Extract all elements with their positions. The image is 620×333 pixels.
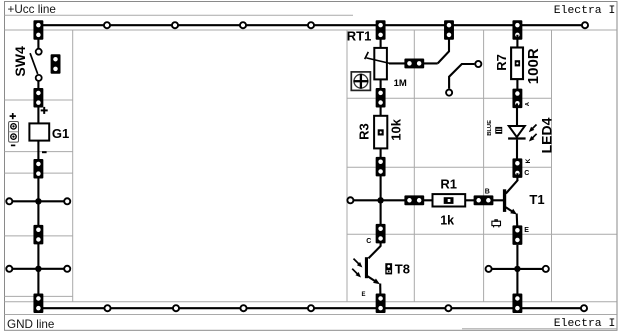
svg-text:Electra I: Electra I — [554, 5, 616, 17]
trimmer screw icon — [351, 72, 370, 91]
pad LED K / T1 C — [512, 158, 522, 178]
LED LED4 — [508, 103, 525, 163]
pad Ucc jumper — [444, 20, 454, 40]
pad G1 minus — [33, 159, 43, 179]
svg-text:SW4: SW4 — [12, 46, 28, 77]
node junction on +Ucc bus 3 — [240, 22, 246, 28]
node cross 2 junction dot — [35, 266, 41, 272]
switch SW4 — [12, 46, 42, 81]
svg-text:R1: R1 — [440, 176, 457, 191]
svg-text:1k: 1k — [440, 214, 454, 228]
node cross 1 junction dot — [35, 198, 41, 204]
svg-text:100R: 100R — [525, 48, 542, 84]
node junction on +Ucc bus 4 — [308, 22, 314, 28]
wire R7 to pad — [516, 79, 518, 93]
pad GND left — [33, 294, 43, 314]
pad Ucc R7 — [512, 20, 522, 40]
wire SW4 to G1 to GND — [37, 81, 39, 123]
node +Ucc bus wire — [38, 24, 585, 26]
wire R3 down to T8 — [380, 148, 382, 246]
wire cross node 1 — [9, 200, 67, 202]
node junction on GND bus 4 — [308, 305, 314, 311]
pad SW4 spare contact — [51, 54, 61, 74]
svg-text:T1: T1 — [529, 192, 544, 207]
svg-text:LED4: LED4 — [538, 117, 554, 153]
pad R7 bottom — [512, 89, 522, 109]
wire R1 left — [354, 199, 433, 201]
node cross right left terminal — [486, 266, 492, 272]
node junction on +Ucc bus 2 — [172, 22, 178, 28]
resistor R3 10k — [356, 116, 403, 149]
pad T8 C — [376, 224, 386, 244]
pad RT1 wiper link — [404, 58, 424, 68]
wire R1 to T1 base — [465, 199, 503, 201]
phototransistor T8 — [365, 246, 410, 308]
svg-text:G1: G1 — [52, 126, 69, 141]
pad R1 right — [474, 195, 494, 205]
node +Ucc bus end terminal — [582, 22, 588, 28]
trimmer RT1 — [347, 28, 407, 89]
T8 package icon — [385, 263, 392, 274]
node junction on GND bus 3 — [240, 305, 246, 311]
wire cross node 2 — [9, 268, 67, 270]
svg-text:BLUE: BLUE — [487, 120, 493, 136]
svg-text:B: B — [485, 188, 490, 195]
pad RT1-R3 — [376, 88, 386, 108]
node cross 2 right terminal — [64, 266, 70, 272]
pad T1 E — [512, 225, 522, 245]
wire cross node right — [489, 268, 546, 270]
pad GND right — [512, 294, 522, 314]
node cross 1 left terminal — [6, 198, 12, 204]
wire RT1 to R3 — [380, 79, 382, 116]
svg-text:R7: R7 — [494, 54, 509, 71]
svg-text:E: E — [524, 227, 529, 234]
svg-text:Electra I: Electra I — [554, 318, 616, 330]
battery clip icon — [9, 113, 19, 145]
svg-text:10k: 10k — [389, 118, 404, 140]
svg-text:1M: 1M — [394, 78, 407, 89]
node R1 row open terminal — [347, 197, 353, 203]
pad R3 bottom — [376, 157, 386, 177]
resistor R7 100R — [494, 35, 542, 84]
svg-text:E: E — [362, 292, 366, 298]
node cross right junction dot — [514, 266, 520, 272]
svg-text:C: C — [524, 170, 529, 177]
LED4 color icon — [495, 127, 502, 134]
wire RT1 wiper to pad — [389, 62, 438, 64]
node cross right right terminal — [543, 266, 549, 272]
svg-text:RT1: RT1 — [347, 28, 372, 43]
node junction on GND bus 5 — [445, 305, 451, 311]
wire free jumper — [449, 64, 474, 89]
T8 light arrows — [352, 259, 362, 278]
node junction dot on R3 column — [377, 197, 383, 203]
pad T8 E / GND — [376, 294, 386, 314]
svg-text:+Ucc line: +Ucc line — [8, 3, 56, 16]
T1 package icon — [492, 220, 501, 228]
wire left branch top (Ucc pad to SW4) — [37, 35, 39, 49]
pad R1 left — [404, 195, 424, 205]
node cross 2 left terminal — [6, 266, 12, 272]
svg-text:C: C — [366, 238, 371, 245]
node jumper open terminal left — [446, 90, 452, 96]
resistor R1 body — [433, 176, 466, 227]
node junction on GND bus 2 — [173, 305, 179, 311]
transistor T1 — [503, 173, 545, 230]
svg-text:R3: R3 — [356, 123, 371, 140]
svg-text:GND line: GND line — [7, 318, 54, 331]
wire diagonal to Ucc pad — [438, 39, 449, 63]
node GND bus wire — [38, 307, 584, 309]
battery G1 — [29, 107, 69, 152]
node junction on GND bus 1 — [104, 305, 110, 311]
svg-text:A: A — [525, 102, 531, 106]
wire T1 emitter to GND — [516, 245, 518, 308]
node jumper open terminal right — [475, 61, 481, 67]
pad Ucc RT1 — [376, 20, 386, 40]
pad left column mid — [33, 225, 43, 245]
svg-text:K: K — [525, 158, 532, 163]
node cross 1 right terminal — [64, 198, 70, 204]
node junction on +Ucc bus 1 — [104, 22, 110, 28]
node GND bus end terminal — [581, 305, 587, 311]
pad SW4-G1 — [33, 88, 43, 108]
LED4 light arrows — [529, 125, 537, 142]
pad Ucc left — [33, 20, 43, 40]
svg-text:T8: T8 — [395, 262, 410, 277]
